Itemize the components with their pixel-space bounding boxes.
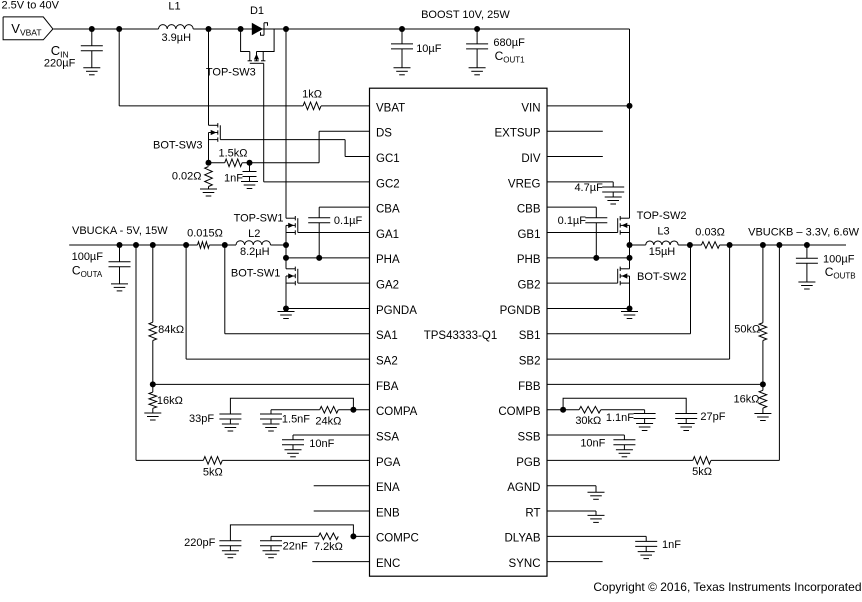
svg-text:220pF: 220pF xyxy=(184,537,215,549)
svg-text:RT: RT xyxy=(525,507,540,519)
svg-text:10nF: 10nF xyxy=(580,437,605,449)
svg-text:22nF: 22nF xyxy=(283,540,308,552)
svg-text:CBA: CBA xyxy=(376,204,400,216)
svg-text:30kΩ: 30kΩ xyxy=(575,415,601,427)
svg-text:CBB: CBB xyxy=(517,204,541,216)
svg-text:16kΩ: 16kΩ xyxy=(157,395,183,407)
svg-text:15µH: 15µH xyxy=(649,246,676,258)
svg-text:0.1µF: 0.1µF xyxy=(334,215,363,227)
svg-text:GB1: GB1 xyxy=(517,229,540,241)
svg-text:84kΩ: 84kΩ xyxy=(158,324,184,336)
svg-text:TPS43333-Q1: TPS43333-Q1 xyxy=(424,330,498,342)
svg-text:FBB: FBB xyxy=(518,381,541,393)
svg-text:VIN: VIN xyxy=(521,102,540,114)
svg-text:VBUCKB – 3.3V, 6.6W: VBUCKB – 3.3V, 6.6W xyxy=(748,226,859,238)
svg-text:SA1: SA1 xyxy=(376,330,398,342)
svg-text:PGA: PGA xyxy=(376,457,401,469)
svg-text:L1: L1 xyxy=(168,1,180,13)
svg-text:DS: DS xyxy=(376,128,392,140)
svg-text:SA2: SA2 xyxy=(376,356,398,368)
svg-text:SB2: SB2 xyxy=(519,356,541,368)
svg-text:BOT-SW2: BOT-SW2 xyxy=(637,271,687,283)
svg-text:100µF: 100µF xyxy=(823,253,855,265)
svg-text:4.7µF: 4.7µF xyxy=(574,182,603,194)
svg-text:GA2: GA2 xyxy=(376,280,399,292)
svg-text:VBUCKA - 5V, 15W: VBUCKA - 5V, 15W xyxy=(72,225,168,237)
svg-text:VBAT: VBAT xyxy=(376,102,405,114)
svg-text:D1: D1 xyxy=(250,5,264,17)
svg-text:16kΩ: 16kΩ xyxy=(734,394,760,406)
svg-text:220µF: 220µF xyxy=(44,58,76,70)
svg-text:COMPA: COMPA xyxy=(376,406,418,418)
svg-text:100µF: 100µF xyxy=(72,251,104,263)
svg-text:0.1µF: 0.1µF xyxy=(558,215,587,227)
svg-text:0.03Ω: 0.03Ω xyxy=(695,227,725,239)
svg-text:SSA: SSA xyxy=(376,431,399,443)
svg-text:1kΩ: 1kΩ xyxy=(302,89,322,101)
svg-text:SB1: SB1 xyxy=(519,330,541,342)
svg-text:BOOST 10V, 25W: BOOST 10V, 25W xyxy=(421,9,510,21)
svg-text:VREG: VREG xyxy=(508,178,541,190)
svg-text:680µF: 680µF xyxy=(493,37,525,49)
svg-text:COMPB: COMPB xyxy=(498,406,541,418)
svg-text:GA1: GA1 xyxy=(376,229,399,241)
svg-text:SYNC: SYNC xyxy=(509,558,541,570)
svg-text:1.5nF: 1.5nF xyxy=(282,414,310,426)
svg-text:27pF: 27pF xyxy=(700,411,725,423)
svg-text:PHB: PHB xyxy=(517,254,541,266)
svg-text:PGNDA: PGNDA xyxy=(376,305,417,317)
svg-text:ENC: ENC xyxy=(376,558,400,570)
svg-text:ENA: ENA xyxy=(376,482,400,494)
svg-text:2.5V to 40V: 2.5V to 40V xyxy=(2,0,60,12)
svg-text:0.015Ω: 0.015Ω xyxy=(187,228,223,240)
svg-text:7.2kΩ: 7.2kΩ xyxy=(314,541,343,553)
svg-text:Copyright © 2016, Texas Instru: Copyright © 2016, Texas Instruments Inco… xyxy=(593,580,861,594)
svg-text:24kΩ: 24kΩ xyxy=(315,416,341,428)
svg-text:BOT-SW3: BOT-SW3 xyxy=(153,140,203,152)
svg-text:3.9µH: 3.9µH xyxy=(162,32,192,44)
svg-text:PGB: PGB xyxy=(516,457,541,469)
svg-text:50kΩ: 50kΩ xyxy=(734,324,760,336)
svg-text:PGNDB: PGNDB xyxy=(500,305,541,317)
svg-text:TOP-SW2: TOP-SW2 xyxy=(637,210,687,222)
svg-text:DLYAB: DLYAB xyxy=(504,533,540,545)
svg-text:PHA: PHA xyxy=(376,254,400,266)
svg-text:8.2µH: 8.2µH xyxy=(240,246,270,258)
svg-text:AGND: AGND xyxy=(507,482,540,494)
svg-text:L3: L3 xyxy=(657,226,669,238)
svg-text:33pF: 33pF xyxy=(189,413,214,425)
svg-text:TOP-SW3: TOP-SW3 xyxy=(206,67,256,79)
svg-text:5kΩ: 5kΩ xyxy=(692,466,712,478)
svg-text:1.5kΩ: 1.5kΩ xyxy=(218,148,247,160)
svg-text:L2: L2 xyxy=(248,228,260,240)
svg-text:1nF: 1nF xyxy=(662,539,681,551)
svg-text:1.1nF: 1.1nF xyxy=(606,412,634,424)
svg-text:EXTSUP: EXTSUP xyxy=(494,128,540,140)
svg-text:0.02Ω: 0.02Ω xyxy=(172,171,202,183)
svg-text:1nF: 1nF xyxy=(224,173,243,185)
svg-text:10µF: 10µF xyxy=(416,43,442,55)
svg-text:GB2: GB2 xyxy=(517,280,540,292)
svg-text:GC2: GC2 xyxy=(376,178,400,190)
svg-text:BOT-SW1: BOT-SW1 xyxy=(231,268,281,280)
svg-text:FBA: FBA xyxy=(376,381,399,393)
svg-text:TOP-SW1: TOP-SW1 xyxy=(234,213,284,225)
svg-text:10nF: 10nF xyxy=(309,438,334,450)
svg-text:DIV: DIV xyxy=(521,153,541,165)
svg-text:5kΩ: 5kΩ xyxy=(203,467,223,479)
svg-text:SSB: SSB xyxy=(517,431,540,443)
svg-text:GC1: GC1 xyxy=(376,153,400,165)
svg-text:ENB: ENB xyxy=(376,507,400,519)
svg-text:COMPC: COMPC xyxy=(376,533,419,545)
